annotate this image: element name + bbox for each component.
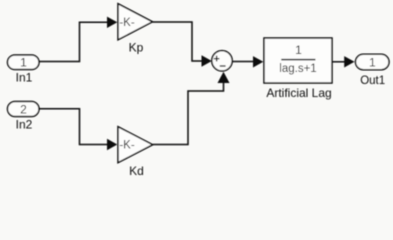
wire Kp to sum bbox=[153, 22, 212, 67]
inport In2 bbox=[8, 102, 40, 132]
wire Kd to sum bbox=[153, 72, 230, 145]
gain Kd bbox=[118, 127, 153, 178]
svg-text:Kd: Kd bbox=[129, 164, 144, 178]
wire In2 to Kd bbox=[39, 109, 117, 151]
gain Kp bbox=[118, 4, 153, 55]
transfer fn Artificial Lag bbox=[264, 38, 332, 100]
svg-text:1: 1 bbox=[20, 56, 27, 70]
svg-text:1: 1 bbox=[295, 43, 302, 57]
svg-text:Out1: Out1 bbox=[360, 75, 385, 87]
svg-text:-K-: -K- bbox=[119, 140, 135, 152]
svg-text:In1: In1 bbox=[16, 71, 33, 85]
wire sum to transfer fn bbox=[232, 56, 263, 67]
svg-text:lag.s+1: lag.s+1 bbox=[279, 63, 316, 75]
svg-text:2: 2 bbox=[20, 103, 27, 117]
svg-text:In2: In2 bbox=[16, 118, 33, 132]
svg-text:Artificial Lag: Artificial Lag bbox=[266, 86, 331, 100]
svg-text:Kp: Kp bbox=[129, 41, 144, 55]
wire In1 to Kp bbox=[39, 17, 117, 62]
svg-text:-K-: -K- bbox=[119, 17, 135, 29]
outport Out1 bbox=[356, 54, 390, 87]
inport In1 bbox=[8, 55, 40, 85]
svg-text:1: 1 bbox=[369, 55, 376, 69]
sum block bbox=[212, 51, 232, 71]
wire transfer fn to Out1 bbox=[332, 56, 355, 67]
